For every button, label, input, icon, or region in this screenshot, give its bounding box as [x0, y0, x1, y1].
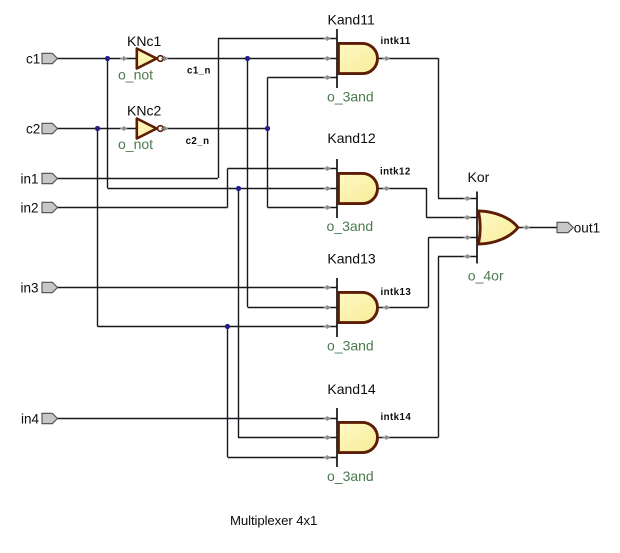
svg-text:in3: in3 [21, 280, 39, 295]
svg-text:Multiplexer 4x1: Multiplexer 4x1 [230, 513, 317, 528]
svg-text:KNc2: KNc2 [127, 103, 161, 119]
svg-text:o_3and: o_3and [327, 89, 374, 105]
svg-text:Kand14: Kand14 [327, 381, 375, 397]
svg-text:Kand11: Kand11 [328, 12, 375, 28]
svg-text:o_3and: o_3and [327, 218, 374, 234]
svg-text:intk14: intk14 [381, 412, 412, 423]
svg-text:intk11: intk11 [381, 36, 411, 47]
svg-text:in2: in2 [21, 200, 39, 215]
svg-text:Kand12: Kand12 [327, 130, 375, 146]
svg-text:o_not: o_not [118, 67, 153, 83]
svg-text:o_4or: o_4or [468, 268, 504, 284]
svg-text:o_not: o_not [118, 136, 153, 152]
svg-text:c1_n: c1_n [187, 66, 211, 77]
svg-text:o_3and: o_3and [327, 338, 374, 354]
svg-text:c1: c1 [26, 51, 40, 66]
svg-text:in1: in1 [21, 171, 39, 186]
svg-text:in4: in4 [21, 411, 40, 426]
svg-text:c2: c2 [26, 121, 40, 136]
svg-text:Kand13: Kand13 [327, 251, 375, 267]
svg-text:KNc1: KNc1 [127, 33, 161, 49]
svg-text:intk12: intk12 [380, 167, 411, 178]
svg-text:o_3and: o_3and [327, 468, 374, 484]
svg-text:out1: out1 [574, 220, 600, 235]
svg-text:c2_n: c2_n [186, 136, 210, 147]
svg-text:intk13: intk13 [381, 287, 412, 298]
svg-text:Kor: Kor [468, 169, 490, 185]
